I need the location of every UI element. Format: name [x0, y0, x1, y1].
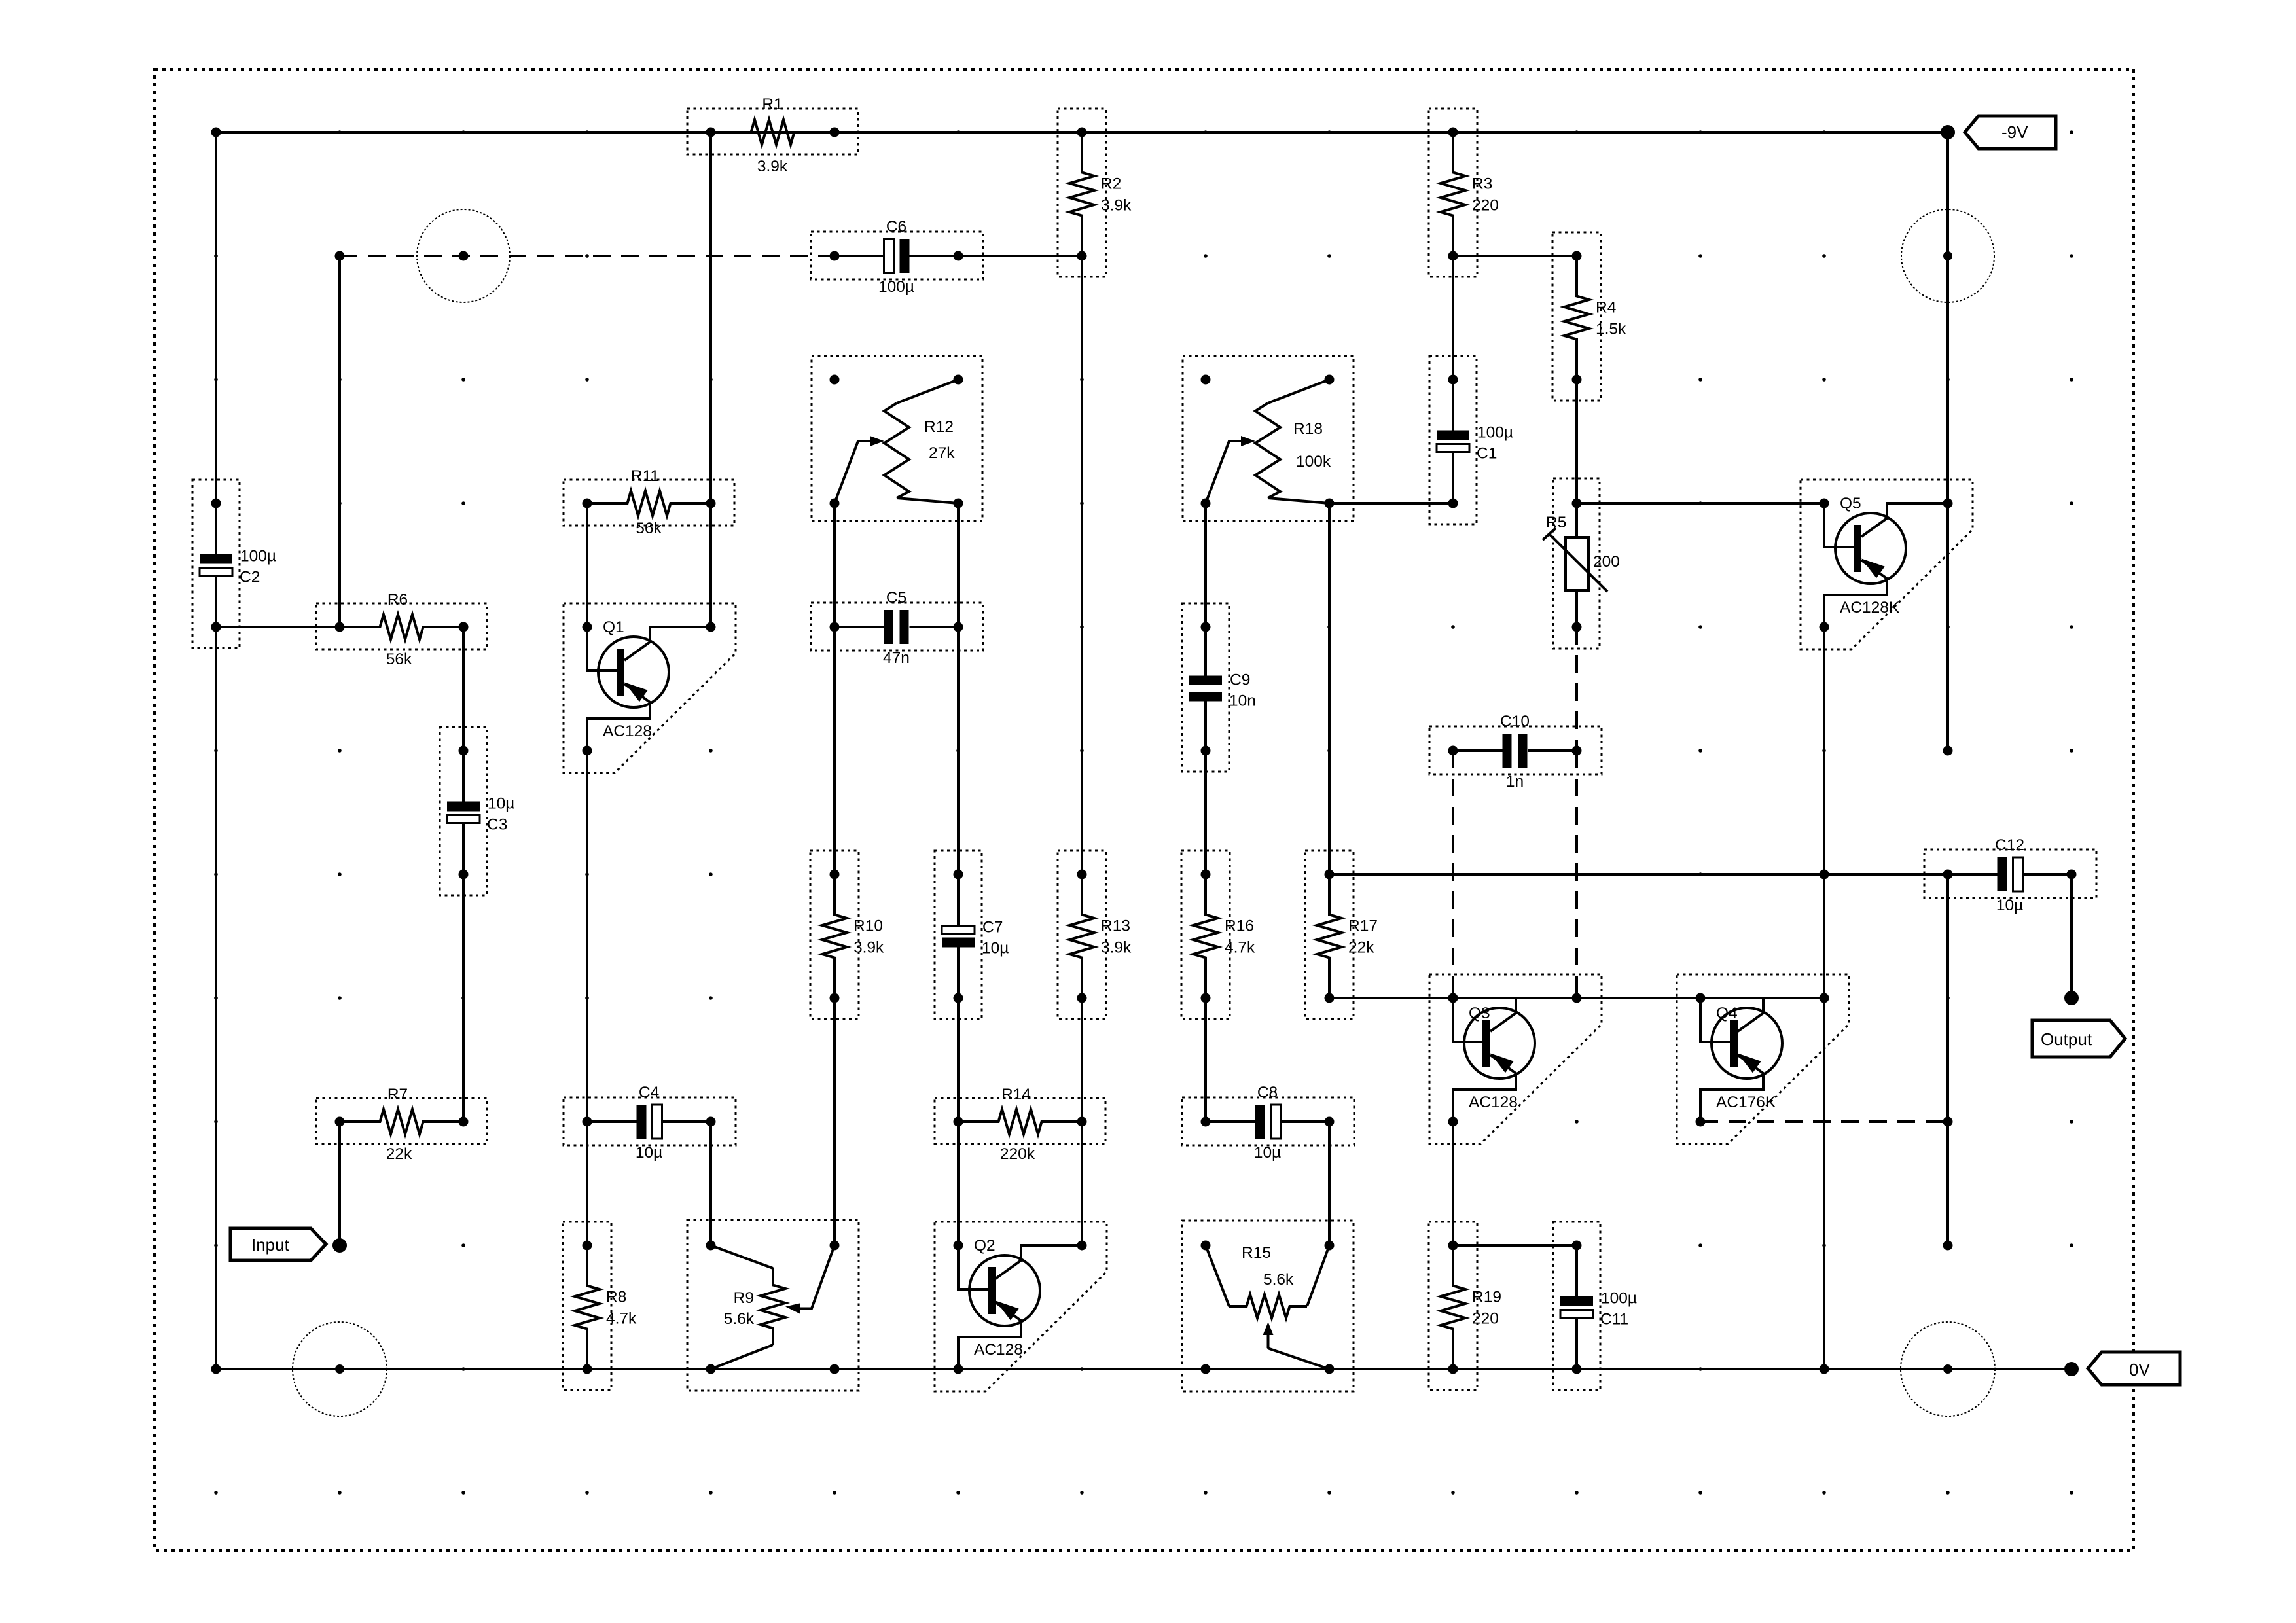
- resistor R1: [687, 96, 858, 175]
- transistor Q3: [1429, 974, 1602, 1144]
- capacitor C5: [811, 589, 983, 667]
- wire input riser: [338, 1122, 341, 1245]
- svg-text:4.7k: 4.7k: [1225, 939, 1255, 957]
- wire c10 Q3e-R19: [1452, 1122, 1454, 1245]
- svg-text:R2: R2: [1101, 175, 1121, 193]
- wire c13 Q4c-0V: [1823, 998, 1825, 1369]
- resistor R8: [563, 1222, 637, 1390]
- resistor R16: [1181, 851, 1255, 1019]
- wire r3 R18-C1: [1329, 502, 1453, 505]
- wire -9V rail: [216, 131, 1948, 134]
- wire dashed R5-C10: [1575, 627, 1578, 751]
- svg-text:R19: R19: [1472, 1289, 1501, 1306]
- marker circle bottom-right: [1901, 1322, 1995, 1416]
- svg-text:3.9k: 3.9k: [1101, 197, 1132, 215]
- svg-text:10µ: 10µ: [1254, 1144, 1281, 1162]
- svg-text:R1: R1: [762, 96, 782, 113]
- capacitor C10: [1429, 713, 1602, 791]
- wire r6 bus: [1329, 873, 1948, 876]
- svg-text:Input: Input: [251, 1235, 290, 1255]
- wire C6 to R2: [958, 255, 1082, 257]
- svg-text:22k: 22k: [386, 1145, 412, 1163]
- wire c4 R1-Q1: [709, 132, 712, 627]
- wire c5 C5-R10: [833, 627, 836, 874]
- wire c7 R2-R13: [1081, 256, 1083, 874]
- svg-text:C6: C6: [886, 218, 906, 236]
- svg-text:100µ: 100µ: [240, 548, 276, 565]
- junction dashed circle node: [459, 251, 469, 261]
- capacitor C8: [1182, 1084, 1354, 1162]
- svg-text:C12: C12: [1995, 836, 2024, 854]
- wire c8 R16-C8: [1204, 998, 1207, 1122]
- resistor R7: [316, 1086, 487, 1163]
- svg-text:Q2: Q2: [974, 1237, 996, 1255]
- ground terminal 0V dot: [2064, 1362, 2079, 1376]
- wire dashed bias: [340, 255, 834, 257]
- wire c11 R4-R5: [1575, 380, 1578, 503]
- resistor R14: [935, 1086, 1105, 1163]
- svg-text:1.5k: 1.5k: [1596, 321, 1626, 338]
- svg-text:R12: R12: [924, 418, 954, 436]
- resistor R13: [1058, 851, 1132, 1019]
- svg-text:-9V: -9V: [2001, 122, 2028, 142]
- capacitor C12: [1924, 836, 2096, 914]
- capacitor C1: [1429, 356, 1513, 524]
- wire c6 C5-C7: [957, 627, 960, 874]
- wire c0 bottom: [215, 627, 217, 1369]
- resistor R11: [564, 467, 734, 537]
- capacitor C7: [935, 851, 1009, 1019]
- wire c3 C4-R8: [586, 1122, 588, 1245]
- resistor R10: [810, 851, 884, 1019]
- wire c8 R18w-C9: [1204, 503, 1207, 627]
- resistor R2: [1058, 109, 1132, 277]
- wire c1 upper: [338, 256, 341, 627]
- wire r7 bus: [1329, 997, 1824, 999]
- svg-text:C5: C5: [886, 589, 906, 607]
- svg-text:R5: R5: [1546, 514, 1566, 531]
- svg-text:Q5: Q5: [1840, 495, 1861, 512]
- svg-text:C8: C8: [1257, 1084, 1278, 1101]
- svg-text:10µ: 10µ: [488, 795, 514, 813]
- junction dashed r8 end: [1943, 1117, 1953, 1127]
- potentiometer R15: [1182, 1221, 1354, 1391]
- svg-text:R15: R15: [1242, 1244, 1271, 1262]
- resistor R17: [1305, 851, 1378, 1019]
- svg-text:200: 200: [1593, 553, 1620, 571]
- wire r9 R19-C11: [1453, 1244, 1577, 1247]
- svg-text:R10: R10: [853, 918, 883, 935]
- junction -9V rail left corner: [211, 128, 221, 137]
- wire c9 C8-R15: [1328, 1122, 1331, 1245]
- capacitor C3: [440, 727, 514, 895]
- svg-text:R3: R3: [1472, 175, 1492, 193]
- svg-text:R16: R16: [1225, 918, 1254, 935]
- svg-text:1n: 1n: [1506, 773, 1524, 791]
- svg-text:AC176K: AC176K: [1716, 1094, 1776, 1111]
- wire r3 R5-Q5: [1577, 502, 1824, 505]
- junction c13 0V rail: [1820, 1364, 1829, 1374]
- wire node A to R6: [216, 626, 340, 628]
- svg-text:100µ: 100µ: [1601, 1290, 1637, 1308]
- transistor Q1: [564, 603, 736, 773]
- svg-text:C9: C9: [1230, 671, 1250, 689]
- junction r6 c13 node: [1820, 870, 1829, 880]
- svg-text:AC128: AC128: [1469, 1094, 1518, 1111]
- svg-text:AC128K: AC128K: [1840, 599, 1900, 616]
- resistor R3: [1429, 109, 1499, 277]
- svg-text:3.9k: 3.9k: [1101, 939, 1132, 957]
- svg-text:10µ: 10µ: [636, 1144, 662, 1162]
- svg-text:R8: R8: [606, 1289, 626, 1306]
- svg-text:R17: R17: [1348, 918, 1378, 935]
- svg-text:C2: C2: [240, 569, 260, 586]
- svg-text:R13: R13: [1101, 918, 1130, 935]
- wire c14 Q5c stub: [1946, 503, 1949, 751]
- svg-text:C11: C11: [1600, 1311, 1628, 1329]
- output flag: [2032, 1020, 2125, 1057]
- wire c10 R3-C1: [1452, 256, 1454, 380]
- marker circle top-right: [1901, 209, 1994, 302]
- junction R6-C3 node: [459, 622, 469, 632]
- wire dashed C10-Q3b: [1452, 751, 1454, 998]
- svg-text:C3: C3: [487, 816, 507, 834]
- svg-text:C1: C1: [1477, 445, 1497, 463]
- svg-text:R14: R14: [1001, 1086, 1031, 1103]
- svg-text:5.6k: 5.6k: [724, 1310, 755, 1328]
- resistor R6: [316, 591, 487, 668]
- svg-text:56k: 56k: [636, 520, 662, 537]
- svg-text:220k: 220k: [1000, 1145, 1035, 1163]
- svg-text:Q3: Q3: [1469, 1005, 1490, 1022]
- wire c7 R13-R14: [1081, 998, 1083, 1122]
- junction node A: [211, 622, 221, 632]
- svg-text:R6: R6: [387, 591, 408, 609]
- wire c13 r6-Q4c: [1823, 874, 1825, 998]
- svg-text:Q4: Q4: [1716, 1005, 1738, 1022]
- power terminal -9V dot: [1941, 125, 1955, 139]
- capacitor C4: [564, 1084, 736, 1162]
- svg-text:220: 220: [1472, 197, 1499, 215]
- input flag: [230, 1228, 326, 1260]
- svg-text:C4: C4: [639, 1084, 659, 1101]
- marker circle bottom-left: [293, 1322, 387, 1416]
- wire dashed Q4e: [1700, 1120, 1948, 1123]
- marker circle top-left: [417, 209, 510, 302]
- svg-text:100µ: 100µ: [878, 278, 914, 296]
- output terminal dot: [2064, 991, 2079, 1005]
- wire right rail: [1946, 132, 1949, 503]
- wire c6 R14-Q2: [957, 1122, 960, 1245]
- capacitor C11: [1553, 1222, 1637, 1390]
- wire c5 R10-R9w: [833, 998, 836, 1245]
- power flag -9V: [1965, 116, 2056, 149]
- svg-text:56k: 56k: [386, 651, 412, 668]
- svg-text:0V: 0V: [2129, 1360, 2150, 1380]
- wire c6 R12-C5: [957, 503, 960, 627]
- svg-text:10µ: 10µ: [982, 940, 1009, 957]
- svg-text:22k: 22k: [1348, 939, 1374, 957]
- wire c6 C7-R14: [957, 998, 960, 1122]
- svg-text:220: 220: [1472, 1310, 1499, 1328]
- potentiometer R18: [1183, 356, 1354, 521]
- wire c8 C9-R16: [1204, 751, 1207, 874]
- resistor R19: [1429, 1222, 1501, 1390]
- potentiometer R12: [812, 356, 982, 521]
- svg-text:R18: R18: [1293, 420, 1323, 438]
- wire dashed C10-Q3c: [1575, 751, 1578, 998]
- svg-text:10µ: 10µ: [1996, 897, 2023, 914]
- junction 0V rail left corner: [211, 1364, 221, 1374]
- svg-text:10n: 10n: [1229, 692, 1256, 710]
- wire c2 C3-R7: [462, 874, 465, 1122]
- svg-text:C7: C7: [982, 919, 1003, 936]
- svg-text:100µ: 100µ: [1477, 424, 1513, 442]
- svg-text:27k: 27k: [929, 444, 955, 462]
- wire c7 R14-Q2c: [1081, 1122, 1083, 1245]
- resistor R4: [1552, 232, 1626, 401]
- ground flag 0V: [2088, 1352, 2180, 1385]
- capacitor C9: [1182, 603, 1256, 772]
- junction c14 r5 stub end: [1943, 746, 1953, 756]
- wire c5 R12w-C5: [833, 503, 836, 627]
- wire c3 Q1e-C4: [586, 751, 588, 1122]
- svg-text:Q1: Q1: [603, 618, 624, 636]
- svg-text:R9: R9: [734, 1289, 754, 1307]
- junction c14 r9 stub end: [1943, 1241, 1953, 1251]
- wire c14 C12 stub: [1946, 874, 1949, 1245]
- svg-text:Output: Output: [2041, 1029, 2092, 1049]
- wire c9 R18-R17: [1328, 503, 1331, 874]
- svg-text:100k: 100k: [1296, 453, 1331, 471]
- svg-text:3.9k: 3.9k: [757, 158, 788, 175]
- transistor Q4: [1677, 974, 1849, 1144]
- wire c15 C12-output: [2070, 874, 2073, 998]
- wire c0 top: [215, 132, 217, 503]
- svg-text:R11: R11: [631, 467, 659, 485]
- wire 0V rail: [216, 1368, 2072, 1370]
- svg-text:AC128: AC128: [974, 1341, 1023, 1359]
- wire c4 C4-R9: [709, 1122, 712, 1245]
- capacitor C2: [192, 480, 276, 648]
- junction dashed start: [335, 251, 345, 261]
- svg-text:R4: R4: [1596, 299, 1616, 317]
- svg-text:C10: C10: [1500, 713, 1530, 730]
- svg-text:47n: 47n: [883, 649, 910, 667]
- wire c13 Q5e: [1823, 627, 1825, 874]
- input terminal dot: [332, 1238, 347, 1253]
- wire c2 R6-C3: [462, 627, 465, 751]
- svg-text:R7: R7: [387, 1086, 408, 1103]
- wire c3 R11-Q1: [586, 503, 588, 627]
- svg-text:AC128: AC128: [603, 722, 652, 740]
- wire r1 R3-R4: [1453, 255, 1577, 257]
- transistor Q5: [1801, 480, 1973, 649]
- svg-text:3.9k: 3.9k: [853, 939, 884, 957]
- trimmer R5: [1543, 478, 1620, 649]
- svg-text:5.6k: 5.6k: [1263, 1271, 1294, 1289]
- potentiometer R9: [687, 1220, 859, 1391]
- svg-text:4.7k: 4.7k: [606, 1310, 637, 1328]
- capacitor C6: [811, 218, 983, 296]
- transistor Q2: [935, 1222, 1107, 1391]
